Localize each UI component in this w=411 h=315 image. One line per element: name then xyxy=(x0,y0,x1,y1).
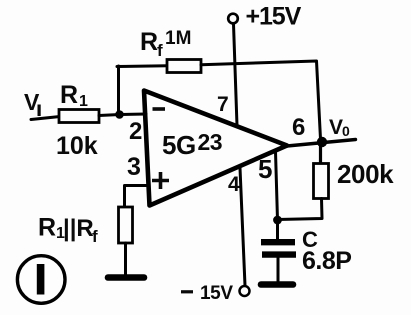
op-amp U1 triangle xyxy=(144,91,287,206)
svg-text:200k: 200k xyxy=(337,159,394,189)
svg-text:f: f xyxy=(157,41,163,60)
node C (capacitor junction) xyxy=(273,216,282,225)
node A (junction at pin 2) xyxy=(115,110,124,119)
ground (below R1||Rf) xyxy=(108,274,144,281)
svg-text:2: 2 xyxy=(129,118,142,145)
svg-text:V: V xyxy=(329,116,343,139)
svg-text:7: 7 xyxy=(217,93,229,116)
resistor Rf xyxy=(167,60,201,73)
wire: +15V supply to pin 7 xyxy=(234,24,238,126)
plus sign (non-inverting input) xyxy=(152,179,169,183)
wire: node C to capacitor xyxy=(276,220,279,240)
capacitor C bottom plate xyxy=(262,251,296,257)
svg-text:f: f xyxy=(92,227,98,246)
wire: pin 5 down to node C xyxy=(276,152,278,221)
node B (output junction) xyxy=(317,137,327,147)
svg-text:15V: 15V xyxy=(200,283,233,304)
wire: feedback left segment xyxy=(117,64,168,68)
svg-text:4: 4 xyxy=(228,173,240,196)
svg-text:6.8P: 6.8P xyxy=(302,247,351,275)
wire: node A to pin 2 xyxy=(120,113,147,117)
label -15V xyxy=(181,290,193,293)
svg-text:R: R xyxy=(60,81,78,109)
wire: node A up to feedback rail xyxy=(117,66,120,115)
wire: R1 to node A xyxy=(99,115,120,116)
svg-text:+15V: +15V xyxy=(246,3,302,31)
wire: 200k bottom to node C xyxy=(278,199,323,220)
svg-text:3: 3 xyxy=(127,153,141,181)
svg-text:||R: ||R xyxy=(63,215,94,242)
svg-text:5: 5 xyxy=(258,154,272,184)
capacitor C top plate xyxy=(261,239,295,245)
resistor R1||Rf xyxy=(119,207,133,243)
wire: input Vi lead xyxy=(31,117,60,120)
minus sign (inverting input) xyxy=(153,107,166,111)
svg-text:5G: 5G xyxy=(162,130,196,160)
ground (below capacitor) xyxy=(261,281,293,288)
wire: R1||Rf to ground xyxy=(124,243,127,276)
svg-text:23: 23 xyxy=(198,129,223,155)
wire: pin 3 to R1||Rf xyxy=(125,186,148,209)
wire: output from pin 6 xyxy=(287,140,356,147)
terminal +15V xyxy=(228,14,238,24)
svg-text:0: 0 xyxy=(342,123,350,139)
wire: feedback right segment xyxy=(201,61,321,139)
svg-text:R: R xyxy=(140,28,158,56)
svg-text:6: 6 xyxy=(292,114,305,141)
wire: pin 4 down to -15V terminal xyxy=(240,168,245,286)
wire: capacitor to ground xyxy=(277,257,280,281)
figure marker: circled 1 xyxy=(17,256,65,304)
svg-text:1M: 1M xyxy=(165,28,191,49)
terminal -15V xyxy=(240,286,250,296)
svg-text:10k: 10k xyxy=(56,132,98,160)
svg-text:R: R xyxy=(38,214,56,242)
resistor 200k xyxy=(314,164,329,199)
wire: node B down to 200k xyxy=(319,142,322,165)
svg-text:1: 1 xyxy=(79,93,88,110)
resistor R1 xyxy=(59,110,99,123)
